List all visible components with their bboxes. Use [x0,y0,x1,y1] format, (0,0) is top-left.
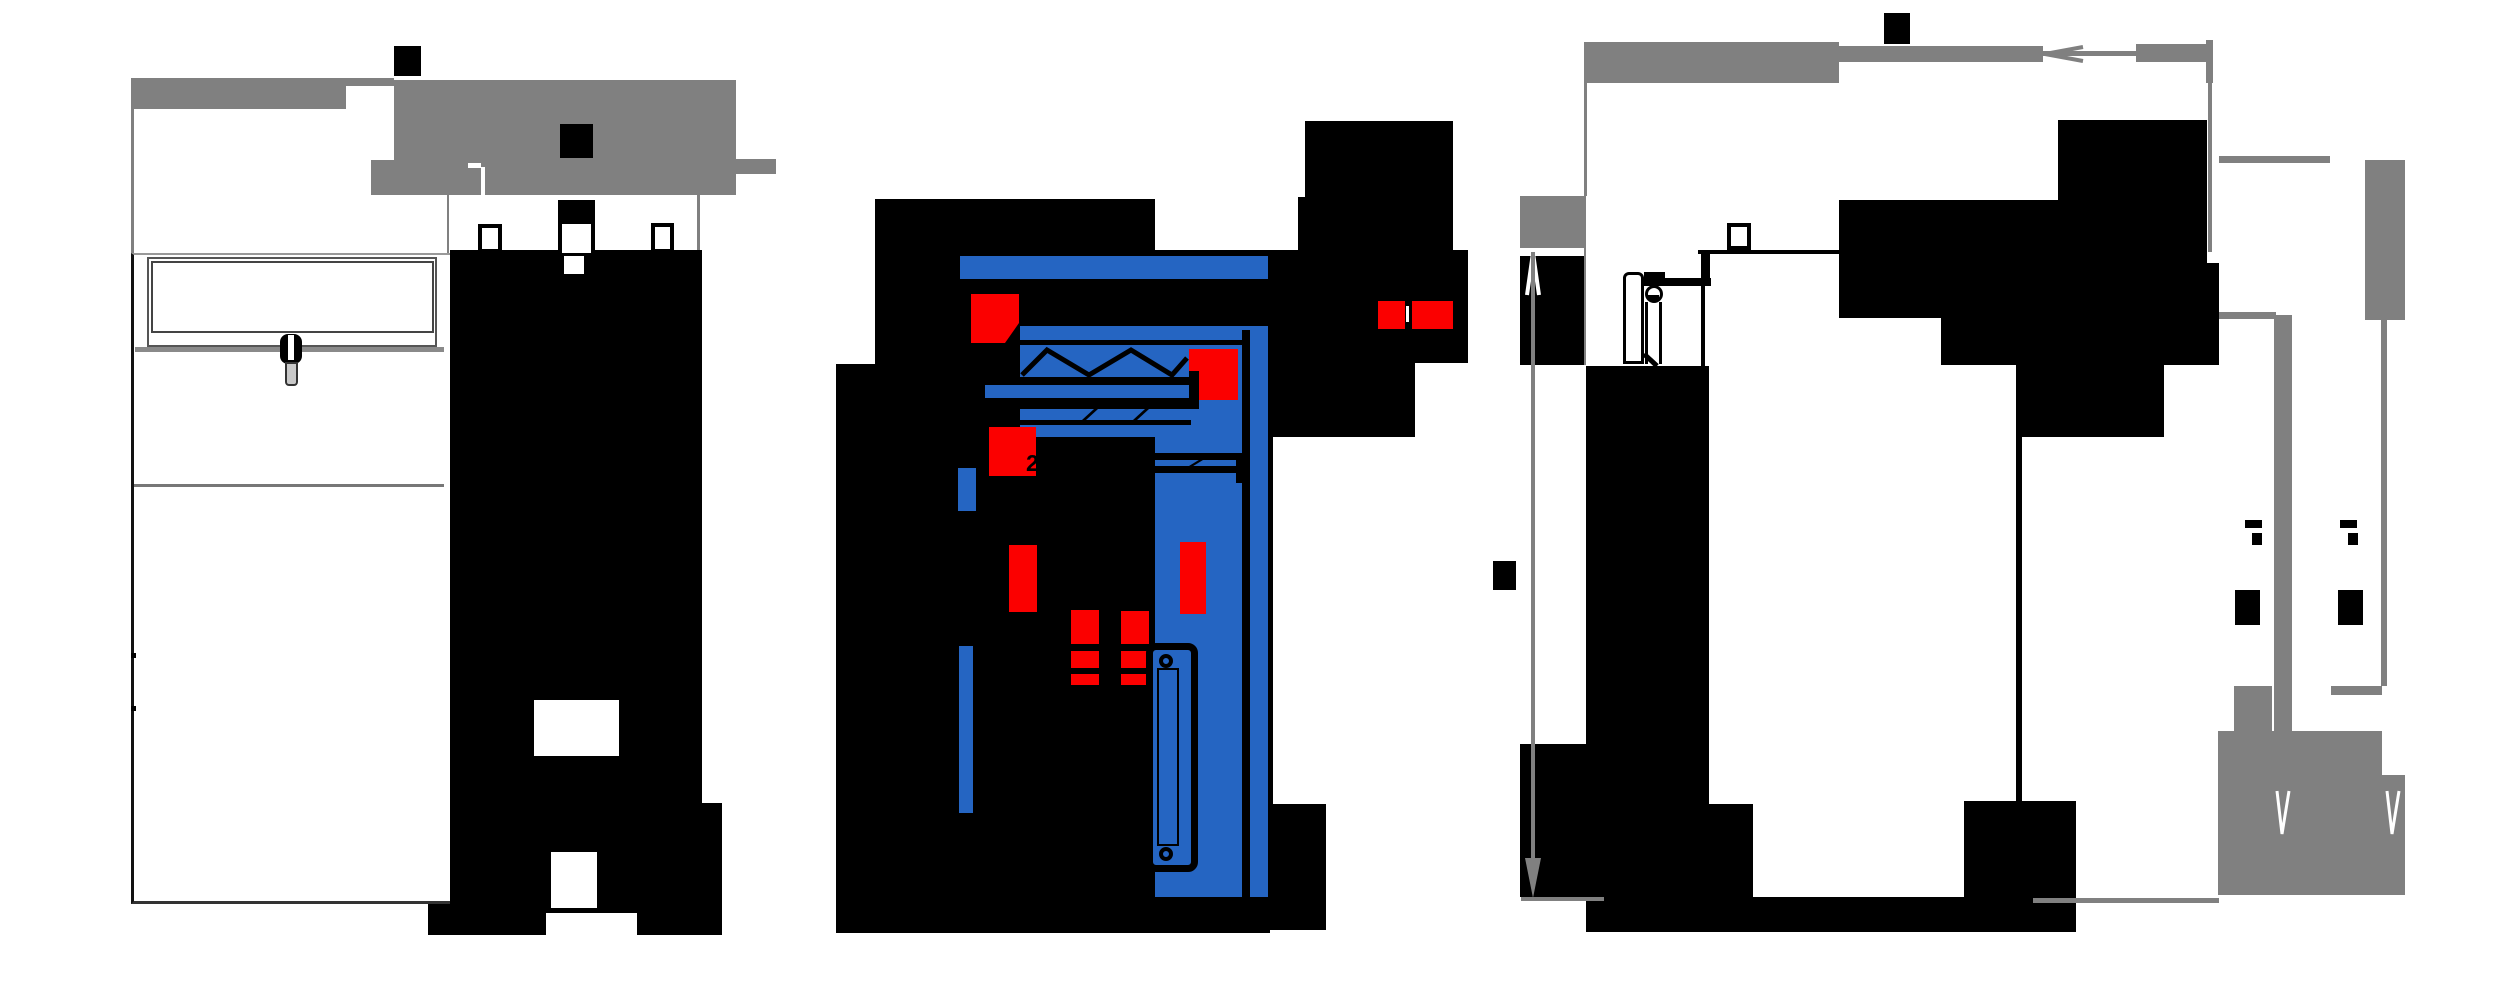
gray mass right arm [736,159,776,174]
keyhole black [280,334,302,364]
gray drop line [1584,83,1587,196]
small label 2a [2340,520,2357,528]
open arrowhead left [2043,44,2085,64]
mid right block [1270,363,1415,437]
gray dim line top [1839,46,2043,62]
blue shelf [985,385,1191,398]
lock cylinder circle [1645,285,1663,303]
gray vertical dim line [1531,252,1535,858]
blob C lower [2016,365,2164,437]
gray blockette [2234,686,2272,731]
cabinet left edge lower [1701,284,1705,366]
gray block top [2365,160,2405,320]
right nub [2206,263,2219,365]
white up arrow [1524,251,1542,297]
zigzag [1020,345,1192,379]
mid extension line [447,195,449,253]
handle inner slot [1157,668,1179,846]
gray baseline left [1521,897,1604,901]
black border right of blue column [1268,437,1273,897]
white arrow 1 [2274,789,2292,836]
black vertical line in blue [1242,330,1250,897]
red pair right [1412,301,1453,329]
hatch slash 1 [1082,409,1098,420]
right extension line [697,195,700,250]
gray block right of dim [2136,44,2209,62]
black block left [1520,256,1584,365]
h line y315 [2219,312,2276,319]
body upper [875,250,1270,364]
white slit in gray mass [481,167,485,195]
blue panel [1020,326,1268,437]
blue strip s1 [958,468,976,511]
gray redaction bar [1584,42,1839,83]
hatch bottom border [1020,420,1191,425]
cabinet flap outer [147,257,437,347]
shelf2 slash [1189,460,1203,466]
key shaft [285,362,298,386]
blob A top column [2058,120,2207,200]
right foot [1964,801,2076,897]
cabinet mid line [134,484,444,487]
black band 2 [985,398,1198,409]
gray corner bar [2206,40,2213,83]
black square inside gray mass [560,124,593,158]
small label 1a [2245,520,2262,528]
left column [1586,366,1709,897]
body lower [836,364,1270,933]
red square R3 [989,427,1036,476]
red pair left [1378,301,1405,329]
shelf2 notch [1236,460,1250,483]
left extension line [131,109,134,253]
bottom band [1586,897,2076,932]
lock cyl line left [1645,302,1648,364]
chimney [558,200,595,253]
tick nub 2 [131,706,136,711]
lock bar outline [1623,272,1644,364]
lock diagonal [1642,352,1660,368]
gray rail under flap [135,347,444,352]
gray connector strip [346,78,394,86]
top band [875,199,1155,250]
small label 2b [2338,590,2363,625]
right step [702,803,722,935]
cabinet right edge line [2016,437,2022,801]
gray baseline right [2033,898,2219,903]
black connector [1189,371,1199,409]
gray vertical right [2208,83,2212,252]
red pair white slit [1406,306,1409,322]
cabinet top line [1698,250,1839,254]
h line y157 [2219,156,2330,163]
shelf2 line a [1155,453,1242,460]
foot right [637,904,722,935]
gray block left [1520,196,1586,248]
gray redaction bar top-left [131,78,346,109]
lock cyl line right [1659,302,1662,364]
red bar R5 [1180,542,1206,614]
right upper block [1298,197,1453,250]
handle screw bottom [1159,847,1173,861]
gray line right of block [1584,248,1586,365]
bottom right block [1267,804,1326,930]
hatch slash 2 [1133,409,1149,420]
door handle plate [1146,643,1198,872]
E label [1493,561,1516,590]
gray block ext [2382,775,2405,895]
big gray block [2218,731,2382,895]
black band under zigzag [1020,377,1191,387]
black redaction square top [1884,13,1910,44]
top-right block [1305,121,1453,197]
wide v line [2274,315,2292,731]
cabinet outer box [131,253,452,904]
white arrow 2 [2384,789,2402,836]
gray mass left step [371,160,394,195]
blue column [1155,437,1268,897]
column right step [1709,804,1753,897]
white square below top [564,256,584,274]
small label 1b [2235,590,2260,625]
big black mass (front) [450,250,702,913]
white hole 1 [534,700,619,756]
lock shelf [1642,278,1711,286]
keyhole white slit [288,335,294,360]
handle screw top [1159,654,1173,668]
nub bottom line [2164,360,2219,365]
left widening [1520,744,1586,897]
chimney inner white [562,224,591,253]
small outlined rect on top [1727,223,1751,250]
cabinet left edge upper [1701,250,1710,284]
gray redaction mass [394,80,736,195]
blob C upper [1941,318,2207,365]
glyph 2 on R3 [1026,452,1046,474]
tick nub 1 [131,653,136,658]
striped fuse left [1071,610,1099,685]
lock cyl mark [1648,295,1659,300]
white dash in gray mass [468,163,481,168]
blue strip s2 [959,646,973,813]
red square R2 [1189,349,1238,400]
red bar R4 [1009,545,1037,612]
striped fuse right [1121,611,1149,685]
red square R1 [971,294,1019,343]
cabinet flap inner [151,261,434,333]
wide right block [1270,250,1468,363]
black wedge on R1 [1005,323,1019,343]
thin dim line [2043,51,2136,56]
outlined foot right [651,223,674,253]
thin v line [2381,320,2387,686]
blob B wide [1839,200,2207,318]
blue top bar [960,256,1268,279]
black redaction square top [394,46,421,76]
lock top bar [1644,272,1665,279]
foot left [428,904,546,935]
gray bar mid [2331,686,2382,695]
outlined foot left [478,224,502,253]
white hole 2 [551,852,597,908]
gray down arrow [1525,858,1541,898]
zigzag box top border [1020,340,1242,345]
shelf2 line b [1155,466,1242,473]
